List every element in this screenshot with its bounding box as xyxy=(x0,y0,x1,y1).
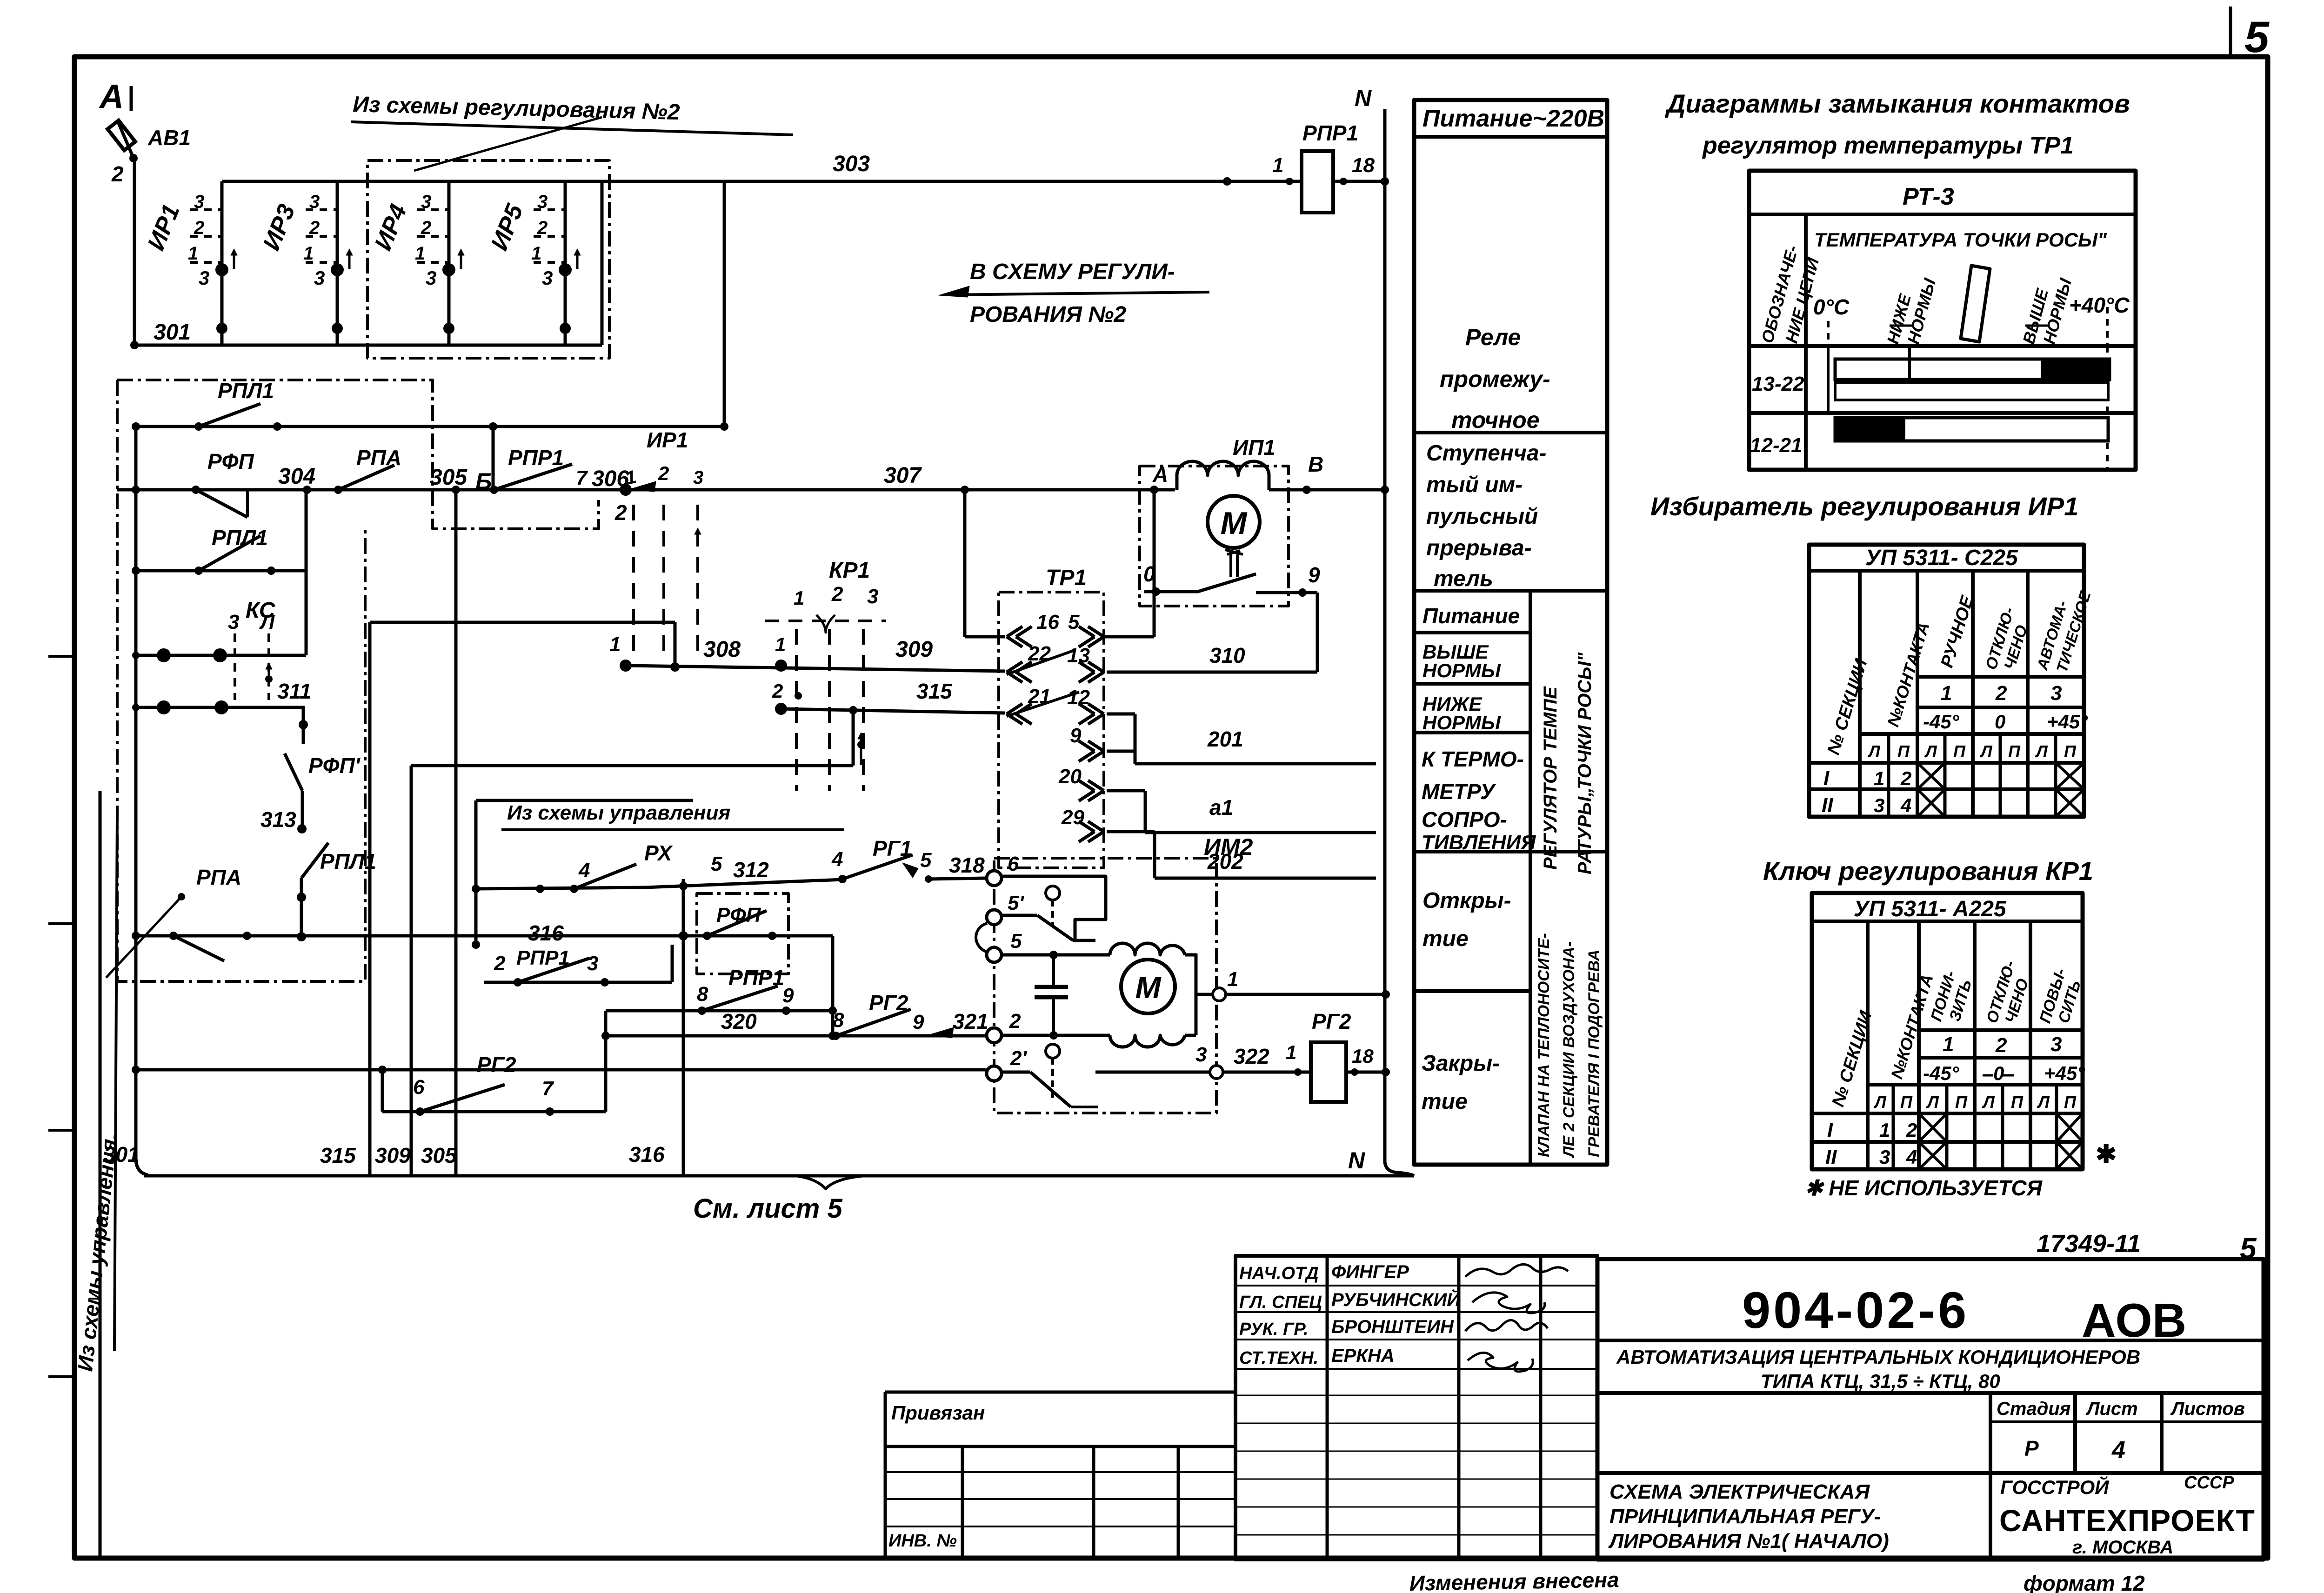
svg-text:ЛИРОВАНИЯ №1( НАЧАЛО): ЛИРОВАНИЯ №1( НАЧАЛО) xyxy=(1608,1530,1889,1553)
svg-text:2: 2 xyxy=(537,218,548,238)
svg-text:5: 5 xyxy=(1068,611,1080,633)
signatures xyxy=(1465,1264,1568,1277)
winding arcs top xyxy=(1110,943,1185,955)
svg-text:315: 315 xyxy=(320,1143,356,1167)
svg-text:РГ2: РГ2 xyxy=(477,1053,516,1077)
svg-text:СОПРО-: СОПРО- xyxy=(1422,807,1507,832)
selector ИР1 xyxy=(142,181,237,345)
svg-text:3: 3 xyxy=(314,267,325,289)
svg-text:РУБЧИНСКИЙ: РУБЧИНСКИЙ xyxy=(1331,1288,1461,1310)
svg-text:1: 1 xyxy=(415,243,425,264)
TR1 contact 22 xyxy=(1007,662,1022,672)
svg-text:СТ.ТЕХН.: СТ.ТЕХН. xyxy=(1239,1348,1318,1368)
pin 5 xyxy=(987,947,1002,962)
svg-text:2: 2 xyxy=(1995,682,2007,705)
svg-text:ГОССТРОЙ: ГОССТРОЙ xyxy=(2000,1475,2109,1498)
svg-text:-45°: -45° xyxy=(1923,1062,1960,1084)
svg-text:Реле: Реле xyxy=(1465,324,1521,350)
svg-text:М: М xyxy=(1135,970,1162,1005)
svg-text:4: 4 xyxy=(1900,794,1911,816)
svg-text:5: 5 xyxy=(2244,13,2270,62)
svg-text:УП 5311- А225: УП 5311- А225 xyxy=(1854,897,2007,921)
TR1 contact 16 xyxy=(1007,627,1022,637)
svg-text:РФП': РФП' xyxy=(308,753,361,778)
svg-text:2: 2 xyxy=(421,218,431,238)
svg-text:ЛЕ 2 СЕКЦИИ ВОЗДУХОНА-: ЛЕ 2 СЕКЦИИ ВОЗДУХОНА- xyxy=(1560,941,1578,1159)
svg-text:ТЕМПЕРАТУРА ТОЧКИ РОСЫ": ТЕМПЕРАТУРА ТОЧКИ РОСЫ" xyxy=(1814,229,2107,251)
svg-text:РАТУРЫ„ТОЧКИ РОСЫ": РАТУРЫ„ТОЧКИ РОСЫ" xyxy=(1575,652,1595,874)
svg-text:307: 307 xyxy=(884,463,922,488)
table RT-3 xyxy=(1749,171,2136,470)
svg-text:309: 309 xyxy=(895,637,933,662)
svg-text:тый им-: тый им- xyxy=(1426,473,1523,497)
pin 6 xyxy=(987,871,1002,886)
contact RFP-prime + RPL1 chain xyxy=(302,707,305,744)
svg-text:НАЧ.ОТД: НАЧ.ОТД xyxy=(1239,1264,1319,1283)
svg-text:Р: Р xyxy=(2024,1436,2039,1460)
leader from control scheme xyxy=(106,897,181,978)
svg-text:П: П xyxy=(1953,742,1966,761)
svg-text:ИР1: ИР1 xyxy=(647,428,688,452)
svg-text:318: 318 xyxy=(949,853,985,877)
svg-text:См. лист 5: См. лист 5 xyxy=(693,1193,842,1224)
svg-text:1: 1 xyxy=(531,243,541,264)
svg-text:СССР: СССР xyxy=(2184,1473,2234,1493)
svg-text:НОРМЫ: НОРМЫ xyxy=(1422,712,1501,733)
TR1 contact 12 xyxy=(1088,704,1104,714)
long wire to pin 2-prime xyxy=(136,1068,985,1072)
svg-text:Лист: Лист xyxy=(2085,1399,2138,1419)
svg-text:а1: а1 xyxy=(1209,795,1233,820)
svg-text:316: 316 xyxy=(629,1142,665,1166)
svg-text:2: 2 xyxy=(1900,767,1911,789)
svg-text:1: 1 xyxy=(794,587,804,609)
pin 2 xyxy=(987,1028,1002,1043)
svg-text:II: II xyxy=(1825,1146,1837,1168)
svg-text:9: 9 xyxy=(913,1011,924,1033)
svg-text:6: 6 xyxy=(1008,853,1019,875)
wire into 16 xyxy=(963,490,967,637)
svg-text:2: 2 xyxy=(309,218,320,238)
wire 303 top horizontal xyxy=(222,180,1302,183)
svg-text:18: 18 xyxy=(1352,154,1375,177)
TR1 contact 9 xyxy=(1088,741,1104,751)
svg-text:7: 7 xyxy=(542,1077,554,1100)
svg-text:2: 2 xyxy=(831,583,843,606)
svg-text:5: 5 xyxy=(711,853,722,875)
svg-text:АОВ: АОВ xyxy=(2082,1294,2186,1347)
svg-text:1: 1 xyxy=(1874,767,1884,789)
svg-text:3: 3 xyxy=(2050,1033,2062,1056)
svg-text:+45°: +45° xyxy=(2047,711,2088,733)
svg-text:3: 3 xyxy=(228,611,239,633)
svg-text:УП 5311- С225: УП 5311- С225 xyxy=(1865,546,2018,570)
svg-text:1: 1 xyxy=(1943,1033,1954,1056)
svg-text:1: 1 xyxy=(1879,1119,1890,1141)
svg-text:2: 2 xyxy=(772,680,783,702)
svg-text:315: 315 xyxy=(916,679,953,703)
TR1 contact 5 xyxy=(1088,627,1104,637)
svg-text:1: 1 xyxy=(609,633,621,656)
svg-text:регулятор температуры ТР1: регулятор температуры ТР1 xyxy=(1702,132,2074,159)
motor M2 xyxy=(1195,953,1198,1035)
svg-text:12-21: 12-21 xyxy=(1750,434,1803,457)
svg-text:Л: Л xyxy=(2035,742,2048,761)
winding arcs bottom xyxy=(1110,1035,1185,1047)
svg-text:Л: Л xyxy=(2037,1093,2050,1112)
svg-text:17349-11: 17349-11 xyxy=(2037,1230,2141,1258)
net 315 drop xyxy=(852,709,855,766)
svg-text:904-02-6: 904-02-6 xyxy=(1742,1282,1969,1339)
wire 201 xyxy=(1107,750,1135,753)
svg-text:ФИНГЕР: ФИНГЕР xyxy=(1331,1262,1409,1282)
svg-text:В СХЕМУ РЕГУЛИ-: В СХЕМУ РЕГУЛИ- xyxy=(970,260,1175,284)
svg-text:301: 301 xyxy=(154,320,191,345)
svg-text:2: 2 xyxy=(1995,1034,2007,1057)
circuit breaker AB1 xyxy=(107,120,135,150)
svg-text:РЕГУЛЯТОР ТЕМПЕ: РЕГУЛЯТОР ТЕМПЕ xyxy=(1540,686,1561,870)
svg-text:М: М xyxy=(1221,506,1248,541)
svg-text:18: 18 xyxy=(1352,1045,1374,1067)
svg-text:ТР1: ТР1 xyxy=(1046,566,1087,590)
actuator IM2 dash-dot box xyxy=(994,858,1216,1113)
wire 307 xyxy=(620,484,632,496)
svg-text:311: 311 xyxy=(277,679,311,703)
svg-text:320: 320 xyxy=(721,1009,757,1033)
svg-text:тель: тель xyxy=(1434,567,1493,591)
pin 2-prime xyxy=(987,1066,1002,1081)
sheet number separator top right xyxy=(2229,7,2232,57)
svg-text:5': 5' xyxy=(1008,892,1024,914)
svg-text:4: 4 xyxy=(831,848,843,871)
svg-text:310: 310 xyxy=(1209,643,1245,667)
svg-text:РТ-3: РТ-3 xyxy=(1903,183,1954,210)
wire from AB1 down to bus 301 xyxy=(133,158,136,345)
svg-text:II: II xyxy=(1822,794,1833,817)
svg-text:Ключ регулирования КР1: Ключ регулирования КР1 xyxy=(1763,856,2093,886)
table UP 5311-C225 xyxy=(1809,545,2084,817)
svg-text:0: 0 xyxy=(1995,711,2005,733)
dashed guides xyxy=(1827,321,1830,346)
svg-text:ЕРКНА: ЕРКНА xyxy=(1331,1346,1395,1366)
svg-text:4: 4 xyxy=(2111,1437,2125,1464)
svg-text:13: 13 xyxy=(1067,644,1090,667)
svg-text:3: 3 xyxy=(421,192,431,212)
svg-text:2: 2 xyxy=(614,500,627,525)
svg-text:точное: точное xyxy=(1451,407,1540,433)
TR1 contact 13 xyxy=(1088,662,1104,672)
svg-text:Б: Б xyxy=(475,468,492,494)
svg-text:Питание: Питание xyxy=(1422,604,1520,628)
svg-text:6: 6 xyxy=(413,1076,425,1099)
svg-text:202: 202 xyxy=(1207,849,1243,873)
svg-text:9: 9 xyxy=(1070,724,1082,747)
svg-text:-45°: -45° xyxy=(1923,711,1960,733)
svg-text:16: 16 xyxy=(1036,611,1059,633)
svg-text:N: N xyxy=(1348,1147,1365,1173)
pin 3 xyxy=(1210,1066,1223,1079)
svg-text:РУК. ГР.: РУК. ГР. xyxy=(1239,1320,1309,1339)
svg-text:+45°: +45° xyxy=(2044,1062,2085,1084)
svg-text:Избиратель регулирования ИР: Избиратель регулирования ИР1 xyxy=(1650,492,2078,521)
wire from 5 up to 307 xyxy=(1104,635,1154,639)
svg-text:П: П xyxy=(2064,1093,2077,1112)
svg-text:А: А xyxy=(1152,462,1168,487)
svg-text:304: 304 xyxy=(278,464,315,489)
row C : wire 308/309 xyxy=(620,660,632,672)
svg-text:3: 3 xyxy=(867,585,878,608)
svg-text:2: 2 xyxy=(111,162,124,186)
svg-text:А: А xyxy=(99,78,124,115)
svg-text:313: 313 xyxy=(260,807,296,832)
svg-text:308: 308 xyxy=(703,637,741,662)
svg-text:3: 3 xyxy=(1874,794,1884,816)
svg-text:Изменения внесена: Изменения внесена xyxy=(1409,1567,1619,1593)
svg-text:305: 305 xyxy=(421,1143,457,1167)
contact KR1-1 xyxy=(775,660,787,672)
svg-text:1: 1 xyxy=(1941,682,1952,705)
selector ИР3 xyxy=(258,181,353,345)
svg-text:Откры-: Откры- xyxy=(1422,888,1511,913)
svg-text:2': 2' xyxy=(1010,1047,1027,1070)
svg-text:ГРЕВАТЕЛЯ I ПОДОГРЕВА: ГРЕВАТЕЛЯ I ПОДОГРЕВА xyxy=(1585,950,1603,1157)
svg-text:0°С: 0°С xyxy=(1813,295,1850,319)
svg-text:ИП1: ИП1 xyxy=(1233,435,1276,460)
winding arcs xyxy=(1175,475,1179,490)
svg-text:Из схемы управления: Из схемы управления xyxy=(507,801,730,824)
svg-text:РФП: РФП xyxy=(207,449,254,473)
TR1 contact 21 xyxy=(1007,704,1022,714)
left vertical wire (net 301 continuation) xyxy=(134,427,138,1160)
svg-text:промежу-: промежу- xyxy=(1440,366,1550,392)
dash-dot enclosure IR4/IR5 (from regulation scheme No2) xyxy=(367,160,609,358)
svg-text:РПА: РПА xyxy=(196,865,241,889)
svg-text:П: П xyxy=(1955,1093,1968,1112)
svg-text:РПЛ1: РПЛ1 xyxy=(218,379,274,403)
svg-text:прерыва-: прерыва- xyxy=(1426,536,1532,560)
leader line xyxy=(414,117,602,171)
svg-text:В: В xyxy=(1308,452,1323,476)
pin 1 xyxy=(1196,993,1212,996)
svg-text:2: 2 xyxy=(194,218,204,238)
capacitor C xyxy=(1035,985,1068,989)
svg-text:ИНВ. №: ИНВ. № xyxy=(888,1531,957,1551)
linked-project row xyxy=(885,1391,1235,1394)
svg-text:САНТЕХПРОЕКТ: САНТЕХПРОЕКТ xyxy=(1999,1503,2255,1538)
row B : RFP 304 RPA 305 B RPR1 7 306 wire 307 xyxy=(117,488,626,492)
svg-text:Привязан: Привязан xyxy=(891,1402,985,1424)
svg-text:АВТОМАТИЗАЦИЯ ЦЕНТРАЛЬНЫХ: АВТОМАТИЗАЦИЯ ЦЕНТРАЛЬНЫХ КОНДИЦИОНЕРОВ xyxy=(1616,1346,2140,1368)
svg-text:3: 3 xyxy=(309,192,320,212)
svg-text:СХЕМА ЭЛЕКТРИЧЕСКАЯ: СХЕМА ЭЛЕКТРИЧЕСКАЯ xyxy=(1609,1480,1870,1503)
contact RH xyxy=(476,887,646,889)
svg-text:1: 1 xyxy=(303,243,314,264)
wire from 12 xyxy=(1107,713,1135,716)
linkage arc xyxy=(976,923,987,952)
svg-text:2: 2 xyxy=(658,462,669,484)
svg-text:303: 303 xyxy=(833,152,870,176)
svg-text:КР1: КР1 xyxy=(829,558,870,583)
svg-text:2: 2 xyxy=(494,952,506,975)
pin 5-prime xyxy=(987,910,1002,925)
svg-text:7: 7 xyxy=(576,467,588,489)
svg-text:Л: Л xyxy=(1926,1093,1939,1112)
svg-text:БРОНШТЕИН: БРОНШТЕИН xyxy=(1331,1317,1454,1337)
crank contact lower xyxy=(1046,1044,1060,1058)
breaker symbol xyxy=(1225,550,1243,554)
brace mark xyxy=(796,1176,864,1189)
inventory table xyxy=(961,1446,964,1560)
svg-text:Закры-: Закры- xyxy=(1422,1051,1500,1076)
svg-text:2: 2 xyxy=(1906,1119,1917,1141)
TR1 contact 29 xyxy=(1088,821,1104,832)
wire 310 from 13 xyxy=(1107,671,1317,674)
svg-text:Л: Л xyxy=(1867,742,1881,761)
svg-text:Л: Л xyxy=(259,611,275,633)
svg-text:формат 12: формат 12 xyxy=(2023,1571,2145,1593)
net 309 drop xyxy=(674,622,677,669)
svg-text:РПР1: РПР1 xyxy=(1302,121,1358,145)
vertical 1060 to row B xyxy=(492,427,495,490)
svg-text:МЕТРУ: МЕТРУ xyxy=(1422,780,1496,804)
svg-text:Л: Л xyxy=(1982,1093,1995,1112)
label: from control scheme (left edge, rotated) xyxy=(99,791,102,1558)
svg-text:РОВАНИЯ №2: РОВАНИЯ №2 xyxy=(970,302,1126,327)
svg-text:+40°С: +40°С xyxy=(2069,293,2130,317)
svg-text:Ступенча-: Ступенча- xyxy=(1426,441,1547,466)
svg-text:1: 1 xyxy=(188,243,198,264)
svg-text:ТИВЛЕНИЯ: ТИВЛЕНИЯ xyxy=(1422,831,1536,854)
svg-text:1: 1 xyxy=(1286,1041,1296,1063)
svg-text:3: 3 xyxy=(2050,682,2062,705)
svg-text:3: 3 xyxy=(199,267,209,289)
svg-text:309: 309 xyxy=(375,1143,411,1167)
net 316 vertical xyxy=(682,879,685,1176)
svg-text:8: 8 xyxy=(697,983,708,1006)
wire 322 to coil RG2 xyxy=(1223,1071,1311,1074)
svg-text:1: 1 xyxy=(1227,968,1238,991)
svg-text:Стадия: Стадия xyxy=(1997,1399,2070,1419)
svg-text:3: 3 xyxy=(426,267,436,289)
svg-text:ТИПА КТЦ, 31,5 ÷ КТЦ, 80: ТИПА КТЦ, 31,5 ÷ КТЦ, 80 xyxy=(1761,1370,2000,1392)
dash-dot enclosure (interlock box) xyxy=(117,380,599,529)
svg-text:П: П xyxy=(2008,742,2021,761)
svg-text:0: 0 xyxy=(1143,562,1155,586)
svg-text:13-22: 13-22 xyxy=(1752,373,1804,395)
TR1 contact 20 xyxy=(1088,780,1104,791)
svg-text:1: 1 xyxy=(775,633,786,655)
svg-text:1: 1 xyxy=(1272,154,1283,177)
svg-text:305: 305 xyxy=(430,465,467,490)
vertical 1557 from wire 303 xyxy=(723,181,726,427)
svg-text:П: П xyxy=(2011,1093,2023,1112)
net 305 drop xyxy=(454,490,458,1176)
svg-text:Листов: Листов xyxy=(2170,1399,2245,1419)
contact RG2 (6-7) xyxy=(381,1070,384,1112)
wire 312 xyxy=(646,880,842,887)
svg-text:пульсный: пульсный xyxy=(1426,504,1538,529)
title block xyxy=(74,1556,2268,1560)
svg-text:Л: Л xyxy=(1979,742,1993,761)
svg-text:4: 4 xyxy=(1906,1146,1917,1168)
svg-text:3: 3 xyxy=(1879,1146,1890,1168)
svg-text:РПЛ1: РПЛ1 xyxy=(320,849,376,873)
svg-text:316: 316 xyxy=(528,921,564,945)
svg-text:N: N xyxy=(1355,85,1372,111)
svg-text:✱: ✱ xyxy=(2096,1140,2117,1168)
svg-text:312: 312 xyxy=(733,858,769,882)
selector ИР4 xyxy=(369,181,464,345)
svg-text:НОРМЫ: НОРМЫ xyxy=(1422,660,1501,681)
svg-text:3: 3 xyxy=(1195,1043,1207,1066)
svg-text:5: 5 xyxy=(1010,930,1022,953)
svg-text:ПРИНЦИПИАЛЬНАЯ РЕГУ-: ПРИНЦИПИАЛЬНАЯ РЕГУ- xyxy=(1609,1505,1881,1528)
svg-text:ГЛ. СПЕЦ: ГЛ. СПЕЦ xyxy=(1239,1293,1322,1312)
svg-text:I: I xyxy=(1823,767,1830,790)
fold tick marks on left border xyxy=(48,655,75,658)
svg-text:322: 322 xyxy=(1234,1044,1269,1068)
table UP 5311-A225 xyxy=(1812,893,2083,1169)
svg-text:РГ2: РГ2 xyxy=(1312,1009,1351,1033)
svg-text:АВ1: АВ1 xyxy=(147,126,191,150)
svg-text:Питание~220В: Питание~220В xyxy=(1422,105,1604,132)
svg-text:3: 3 xyxy=(542,267,553,289)
svg-text:тие: тие xyxy=(1422,1089,1468,1114)
contact RFP (in dash-dot box) xyxy=(697,893,788,974)
wire a1 xyxy=(1107,789,1145,793)
svg-text:321: 321 xyxy=(953,1009,988,1033)
svg-text:РПР1: РПР1 xyxy=(508,446,564,470)
svg-text:9: 9 xyxy=(782,984,794,1007)
svg-text:Л: Л xyxy=(1924,742,1937,761)
svg-text:29: 29 xyxy=(1061,806,1084,829)
motor M1 xyxy=(1208,496,1260,548)
svg-text:9: 9 xyxy=(1308,563,1320,587)
wire 202 xyxy=(1107,830,1155,833)
svg-text:✱ НЕ ИСПОЛЬЗУЕТСЯ: ✱ НЕ ИСПОЛЬЗУЕТСЯ xyxy=(1805,1176,2043,1200)
svg-text:0: 0 xyxy=(1993,1062,2004,1084)
feeder vertical xyxy=(474,800,478,945)
svg-text:8: 8 xyxy=(833,1009,844,1032)
svg-text:КЛАПАН НА ТЕПЛОНОСИТЕ-: КЛАПАН НА ТЕПЛОНОСИТЕ- xyxy=(1535,933,1553,1157)
svg-text:I: I xyxy=(1827,1119,1833,1141)
svg-text:12: 12 xyxy=(1067,686,1090,709)
svg-text:г. МОСКВА: г. МОСКВА xyxy=(2072,1537,2173,1558)
svg-text:3: 3 xyxy=(587,952,598,975)
svg-text:3: 3 xyxy=(537,192,548,212)
selector ИР5 xyxy=(486,181,581,345)
legend table (power 220V) xyxy=(1414,100,1607,1165)
bus 301 xyxy=(134,344,602,347)
svg-text:2: 2 xyxy=(1009,1010,1021,1033)
svg-text:5: 5 xyxy=(920,849,932,872)
svg-text:П: П xyxy=(2064,742,2077,761)
crank contact upper xyxy=(1046,886,1060,900)
svg-text:201: 201 xyxy=(1207,727,1243,751)
svg-text:20: 20 xyxy=(1058,765,1082,788)
row D : wire 315 xyxy=(775,703,787,715)
svg-text:П: П xyxy=(1897,742,1910,761)
svg-text:РХ: РХ xyxy=(644,841,673,865)
svg-text:4: 4 xyxy=(578,859,590,882)
svg-text:тие: тие xyxy=(1422,926,1469,951)
contact RG1 xyxy=(838,875,847,883)
bottom bus (to sheet 5) xyxy=(144,1174,1414,1178)
svg-text:3: 3 xyxy=(194,192,204,212)
signature table xyxy=(1235,1256,1597,1560)
svg-text:П: П xyxy=(1900,1093,1913,1112)
svg-text:К ТЕРМО-: К ТЕРМО- xyxy=(1422,747,1524,771)
